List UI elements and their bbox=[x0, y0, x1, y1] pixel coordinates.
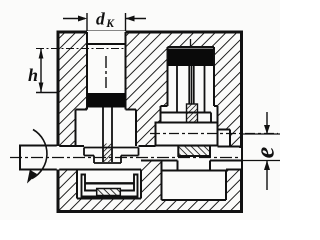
left cylinder axis centerline bbox=[105, 56, 107, 88]
shaft bore bottom edge left half bbox=[58, 169, 141, 171]
pump housing (cross-hatched section) bbox=[58, 32, 242, 212]
lower-right sump cavity outline bbox=[162, 161, 227, 201]
right piston skirt walls bbox=[177, 66, 205, 113]
shaft axis dash-dot centerline bbox=[10, 157, 241, 159]
left rod T-foot lower boss bbox=[94, 156, 121, 164]
right piston rod upper striped section bbox=[189, 66, 194, 104]
shaft bore bottom edge at right wall bbox=[226, 169, 241, 171]
dimension e upper arrowhead bbox=[264, 125, 270, 134]
left piston seal (black) bbox=[87, 93, 126, 108]
housing cavity cut-outs (white) bbox=[57, 31, 241, 200]
left crankcase cavity ledges and walls bbox=[76, 110, 137, 147]
dimension e lower extension line bbox=[241, 160, 280, 162]
right cylinder axis tick bbox=[190, 39, 192, 47]
dimension d_K lines and extensions bbox=[63, 13, 146, 31]
right follower foot plate bbox=[161, 113, 212, 123]
dimension h lines bbox=[36, 49, 58, 93]
dimension e upper extension line bbox=[242, 133, 280, 135]
left rod T-foot upper plate bbox=[84, 148, 139, 156]
rod seat ledge marks bbox=[180, 123, 204, 125]
shaft pass-through gap in left housing wall bbox=[57, 146, 60, 170]
rotation arrowhead bbox=[27, 170, 37, 184]
right cylinder bore walls bbox=[168, 47, 215, 106]
eccentric strap lower yoke bbox=[162, 161, 228, 171]
hatched stop block on cup floor bbox=[97, 189, 121, 196]
right piston rod sectioned lower end bbox=[187, 104, 198, 124]
shaft bore top edges through housing bbox=[58, 145, 240, 148]
label e (rotated) bbox=[261, 147, 274, 157]
eccentric axis dash-dot centerline bbox=[150, 133, 278, 135]
left piston crown line bbox=[87, 43, 126, 45]
dimension e lines bbox=[266, 112, 268, 190]
dimension d_K left arrowhead bbox=[78, 16, 87, 22]
shaft rotation direction arc bbox=[32, 130, 47, 179]
label d (of d_K) bbox=[96, 12, 105, 24]
spring plate inside cup bbox=[85, 182, 134, 184]
right piston seal (black) bbox=[168, 49, 214, 67]
lower-left sump cavity outline bbox=[77, 170, 141, 199]
dimension d_K right arrowhead bbox=[126, 16, 135, 22]
shaft bottom edge right half and centre pier top bbox=[141, 160, 241, 162]
left piston top-dead-centre dash-dot line bbox=[36, 48, 125, 50]
sectioned shaft hub (hatched) under glide block bbox=[178, 146, 210, 156]
label K subscript (of d_K) bbox=[106, 20, 114, 27]
label h bbox=[28, 69, 37, 81]
right crankcase cavity ledges and walls bbox=[161, 106, 231, 146]
dimension e lower arrowhead bbox=[264, 161, 270, 171]
drive shaft protruding left of housing bbox=[20, 146, 58, 170]
left piston rod (sectioned lower part) bbox=[103, 144, 112, 163]
guide cup in lower-left sump bbox=[82, 175, 138, 197]
eccentric glide block bbox=[156, 123, 218, 146]
left cylinder bore walls bbox=[87, 32, 126, 110]
dimension h upper arrowhead bbox=[39, 49, 44, 59]
dimension h lower arrowhead bbox=[39, 83, 44, 93]
